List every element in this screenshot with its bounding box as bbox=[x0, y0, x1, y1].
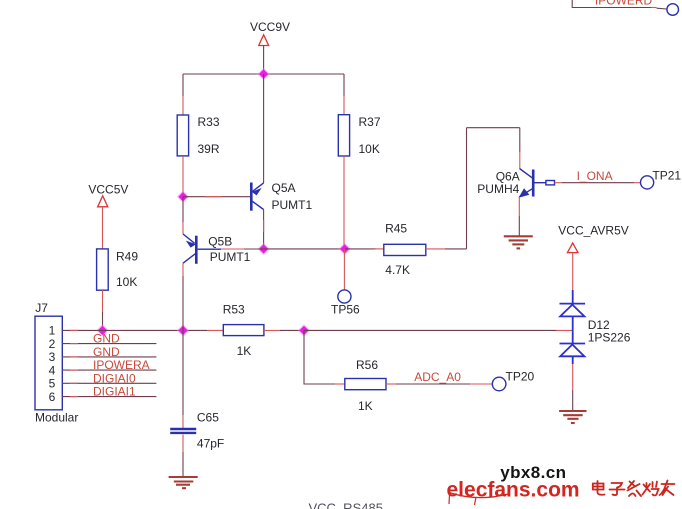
svg-text:J7: J7 bbox=[35, 301, 48, 315]
svg-text:GND: GND bbox=[93, 345, 120, 359]
diode D12 lower bbox=[560, 344, 586, 357]
wire node to Q5B emitter bbox=[182, 197, 184, 234]
base resistor of Q6A (PUMH4) bbox=[546, 181, 555, 185]
svg-text:1K: 1K bbox=[237, 344, 252, 358]
wire branch down to R56 bbox=[304, 330, 335, 384]
svg-text:10K: 10K bbox=[116, 275, 137, 289]
wire VCC5V to R49 bbox=[102, 207, 104, 249]
wire R53 right bbox=[264, 329, 304, 331]
wire Q5A base bbox=[183, 196, 250, 198]
svg-text:DIGIAI0: DIGIAI0 bbox=[93, 371, 136, 385]
resistor R45 bbox=[384, 244, 426, 255]
wire main row to D12 bbox=[304, 329, 574, 331]
svg-text:4: 4 bbox=[49, 363, 56, 377]
svg-text:6: 6 bbox=[49, 390, 56, 404]
svg-text:TP56: TP56 bbox=[331, 303, 360, 317]
ground under Q6A bbox=[504, 236, 533, 248]
svg-text:R49: R49 bbox=[116, 250, 138, 264]
svg-text:39R: 39R bbox=[198, 142, 220, 156]
power port VCC5V bbox=[88, 182, 128, 206]
svg-text:TP21: TP21 bbox=[652, 169, 681, 183]
svg-text:ADC_A0: ADC_A0 bbox=[414, 370, 461, 384]
power port VCC9V bbox=[250, 20, 290, 46]
svg-text:1PS226: 1PS226 bbox=[588, 331, 631, 345]
test point TP56 bbox=[338, 290, 351, 303]
wire rail to R33 top bbox=[182, 74, 184, 115]
resistor R53 bbox=[223, 325, 264, 336]
svg-text:R33: R33 bbox=[198, 115, 220, 129]
transistor Q5B bbox=[183, 234, 196, 264]
wire R37 bottom bbox=[343, 156, 345, 249]
svg-text:TP20: TP20 bbox=[506, 370, 535, 384]
wire pin3 with net GND bbox=[62, 356, 156, 358]
svg-text:IPOWERD: IPOWERD bbox=[595, 0, 653, 8]
ground under C65 bbox=[169, 477, 198, 488]
junction top rail / VCC9V bbox=[257, 68, 270, 81]
wire loop vertical bbox=[466, 128, 468, 249]
svg-text:VCC_AVR5V: VCC_AVR5V bbox=[558, 224, 628, 238]
wire pin2 with net GND bbox=[62, 343, 156, 345]
svg-text:4.7K: 4.7K bbox=[385, 263, 410, 277]
test point TP21 bbox=[641, 176, 654, 189]
svg-text:VCC9V: VCC9V bbox=[250, 20, 290, 34]
resistor R56 bbox=[345, 379, 386, 390]
svg-text:5: 5 bbox=[49, 377, 56, 391]
watermark signature swoosh bbox=[449, 493, 508, 506]
wire VCC9V rail to Q5A emitter bbox=[263, 74, 265, 183]
wire C65 bottom bbox=[182, 435, 184, 478]
wire Q5B base row bbox=[198, 248, 264, 250]
svg-text:VCC5V: VCC5V bbox=[88, 182, 128, 196]
svg-text:Q5B: Q5B bbox=[208, 235, 232, 249]
wire base row to R37 bottom bbox=[264, 248, 345, 250]
wire R49 bottom bbox=[102, 290, 104, 330]
wire Q6A emitter to ground bbox=[518, 197, 520, 237]
wire R56 to TP20 bbox=[386, 383, 493, 385]
junction R53 node / R56 branch bbox=[298, 324, 311, 337]
test point TP20 bbox=[492, 377, 506, 391]
ground under D12 bbox=[559, 411, 586, 423]
svg-text:elecfans.com: elecfans.com bbox=[447, 478, 580, 501]
svg-text:C65: C65 bbox=[197, 411, 219, 425]
svg-text:R37: R37 bbox=[359, 115, 381, 129]
svg-text:1K: 1K bbox=[358, 399, 373, 413]
transistor Q6A bbox=[519, 169, 546, 198]
svg-text:2: 2 bbox=[49, 337, 56, 351]
wire R45 right bbox=[426, 248, 467, 250]
svg-text:GND: GND bbox=[93, 332, 120, 346]
junction R49 / main row bbox=[96, 324, 109, 337]
wire rail to R37 top bbox=[343, 74, 345, 115]
wire D12 mid bbox=[572, 316, 574, 343]
capacitor C65 bbox=[170, 429, 196, 433]
watermark chinese characters bbox=[593, 481, 675, 497]
junction R33 bottom node bbox=[177, 190, 190, 203]
svg-text:I_ONA: I_ONA bbox=[577, 169, 613, 183]
wire R33 bottom to node bbox=[182, 156, 184, 197]
svg-text:IPOWERA: IPOWERA bbox=[93, 358, 150, 372]
wire pin5 with net DIGIAI0 bbox=[62, 382, 156, 384]
junction Q5B collector / main row bbox=[177, 324, 190, 337]
wire IPOWERD to test point bbox=[651, 8, 667, 10]
wire Q5A collector down bbox=[263, 210, 265, 249]
connector J7 bbox=[35, 316, 62, 410]
wire D12 bottom to ground bbox=[572, 356, 574, 411]
diode D12 upper bbox=[560, 304, 586, 317]
svg-text:R45: R45 bbox=[385, 222, 407, 236]
wire VCC_AVR5V to D12 bbox=[572, 253, 574, 304]
svg-text:Modular: Modular bbox=[35, 411, 78, 425]
svg-text:R53: R53 bbox=[223, 303, 245, 317]
svg-text:VCC_RS485: VCC_RS485 bbox=[309, 501, 383, 509]
svg-text:10K: 10K bbox=[359, 142, 380, 156]
svg-text:PUMH4: PUMH4 bbox=[477, 182, 519, 196]
wire pin1 / main row left bbox=[62, 329, 223, 331]
svg-text:PUMT1: PUMT1 bbox=[272, 198, 313, 212]
svg-text:3: 3 bbox=[49, 350, 56, 364]
resistor R49 bbox=[97, 249, 109, 290]
wire Q6A base to TP21 bbox=[555, 182, 641, 184]
transistor Q5A bbox=[251, 183, 263, 211]
svg-text:R56: R56 bbox=[356, 358, 378, 372]
wire to Q6A collector bbox=[519, 128, 521, 169]
junction R37 bottom node bbox=[338, 243, 351, 256]
wire VCC9V stub bbox=[263, 46, 265, 75]
wire pin6 with net DIGIAI1 bbox=[62, 396, 156, 398]
wire top rail bbox=[183, 73, 344, 75]
wire node to R45 bbox=[345, 248, 384, 250]
wire C65 top bbox=[182, 330, 184, 428]
wire pin4 with net IPOWERA bbox=[62, 369, 156, 371]
wire Q5B collector down bbox=[182, 263, 184, 330]
svg-text:47pF: 47pF bbox=[197, 437, 224, 451]
power port VCC_AVR5V bbox=[558, 224, 628, 253]
sheet connector IPOWERD (clipped) bbox=[572, 0, 652, 8]
test point IPOWERD bbox=[667, 4, 679, 16]
svg-text:Q5A: Q5A bbox=[272, 181, 296, 195]
junction Q5A collector / Q5B base row bbox=[257, 243, 270, 256]
svg-text:PUMT1: PUMT1 bbox=[210, 250, 251, 264]
wire loop horizontal bbox=[467, 127, 520, 129]
svg-text:DIGIAI1: DIGIAI1 bbox=[93, 385, 136, 399]
resistor R33 bbox=[177, 115, 188, 156]
resistor R37 bbox=[338, 115, 349, 156]
wire into R56 bbox=[335, 383, 345, 385]
wire node to TP56 bbox=[343, 249, 345, 290]
svg-text:1: 1 bbox=[49, 324, 56, 338]
